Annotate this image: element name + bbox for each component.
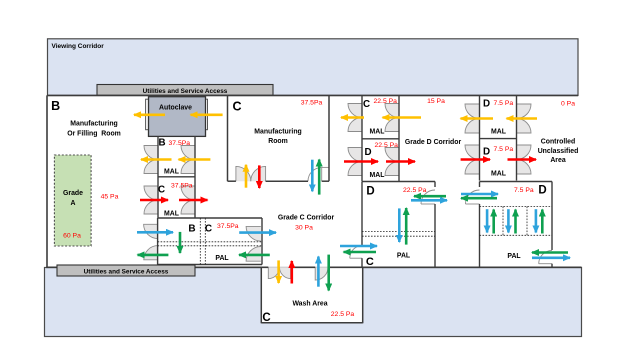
right D PAL cells dashed vert 2 [526, 207, 528, 236]
svg-text:60 Pa: 60 Pa [63, 233, 81, 240]
right D PAL cell3 arrow green up [541, 210, 544, 234]
right D PAL left wall stub [479, 182, 481, 188]
svg-text:Manufacturing: Manufacturing [254, 129, 301, 136]
autoclave right tab [205, 99, 208, 130]
middle MAL column right wall [398, 95, 400, 181]
right MAL divider wall [480, 138, 517, 140]
right D PAL cell2 arrow green up [514, 210, 517, 234]
svg-text:37.5Pa: 37.5Pa [169, 140, 191, 147]
svg-text:Unclassified: Unclassified [538, 148, 579, 155]
C MAL door right (double-acting) [181, 186, 195, 200]
bottom corridor zone [45, 268, 582, 337]
svg-text:D: D [483, 98, 490, 109]
right D PAL bottom door arc [539, 250, 552, 263]
wash door arrow green down [327, 255, 330, 291]
left D PAL dashed divider 1 [362, 231, 435, 233]
B MAL arrow yellow left inner [179, 158, 211, 161]
PAL B/C left wall [157, 218, 159, 265]
middle D MAL door right [385, 148, 399, 162]
svg-text:Grade C Corridor: Grade C Corridor [278, 215, 335, 222]
right D PAL cells dashed vert 1 [502, 207, 504, 236]
left D PAL left wall upper [361, 182, 363, 246]
svg-text:C: C [205, 224, 212, 235]
right D PAL bottom arrow blue out [532, 256, 570, 259]
wash door arrow yellow down [277, 260, 280, 283]
svg-text:30 Pa: 30 Pa [295, 224, 313, 231]
middle D MAL arrow red inner [344, 160, 378, 163]
right D PAL cell2 arrow blue down [507, 209, 510, 232]
svg-text:37.5Pa: 37.5Pa [171, 183, 193, 190]
facility bottom wall seg3 [328, 266, 582, 268]
PAL B/C vertical divider dashed 1 [199, 218, 201, 265]
left MAL column right wall [194, 136, 196, 218]
wash door arrow blue up [317, 257, 320, 287]
viewing corridor zone [48, 39, 579, 96]
svg-text:0 Pa: 0 Pa [561, 100, 575, 107]
svg-text:PAL: PAL [507, 253, 520, 260]
facility bottom wall seg1 [46, 266, 268, 268]
right MAL column right wall [516, 95, 518, 180]
right D PAL cells dashed top [480, 206, 553, 208]
svg-text:Utilities and Service Access: Utilities and Service Access [143, 88, 228, 95]
svg-text:Grade D Corridor: Grade D Corridor [405, 139, 462, 146]
left D PAL top wall [362, 181, 435, 183]
manufacturing room right wall [328, 95, 330, 181]
svg-text:D: D [483, 147, 490, 158]
svg-text:37.5Pa: 37.5Pa [217, 223, 239, 230]
PAL right wall bottom door [246, 247, 261, 262]
left MAL column left wall [157, 136, 159, 218]
wash door double right leaf [280, 267, 291, 278]
svg-text:C: C [366, 256, 374, 268]
middle C MAL door left [348, 104, 362, 118]
svg-text:D: D [366, 186, 374, 198]
svg-text:A: A [71, 200, 76, 207]
manufacturing room double door right leaf [251, 166, 266, 181]
svg-text:B: B [158, 137, 165, 148]
middle D MAL arrow red outer [386, 160, 415, 163]
svg-text:MAL: MAL [491, 170, 506, 177]
left D PAL C-door arrow blue in [340, 245, 377, 248]
PAL B/C right wall [261, 218, 263, 265]
middle MAL column left wall [361, 95, 363, 181]
PAL arrow green down internal [179, 232, 182, 253]
right D MAL top door right [517, 104, 532, 119]
manufacturing room right door arrow green up [318, 160, 321, 195]
svg-text:MAL: MAL [370, 172, 385, 179]
left D PAL arrow green in [414, 195, 446, 198]
wash door single leaf [315, 267, 328, 280]
PAL B/C horizontal divider dashed 1 [158, 241, 262, 243]
svg-text:22.5 Pa: 22.5 Pa [375, 142, 399, 149]
left D PAL right wall stub [434, 182, 436, 188]
facility top wall [47, 94, 578, 96]
middle C MAL arrow yellow outer [341, 116, 364, 119]
svg-text:7.5 Pa: 7.5 Pa [514, 187, 534, 194]
svg-text:Autoclave: Autoclave [159, 104, 192, 111]
right D MAL bottom arrow red outer [508, 158, 537, 161]
right D PAL right wall lower [551, 264, 553, 268]
svg-text:B: B [51, 99, 60, 113]
PAL left wall top door [144, 224, 158, 238]
left D PAL top-right door leaf [421, 203, 435, 205]
wash area left wall [260, 267, 262, 323]
right D MAL bottom door right [517, 145, 532, 160]
manufacturing room right door lintel [322, 166, 329, 168]
facility left wall [46, 95, 48, 267]
middle C MAL door right [385, 104, 399, 118]
right D PAL arrow green out [461, 197, 497, 200]
left D PAL arrow green up internal [405, 208, 408, 245]
svg-text:37.5Pa: 37.5Pa [301, 100, 323, 107]
left D PAL left wall lower [361, 258, 363, 267]
svg-text:Viewing Corridor: Viewing Corridor [52, 43, 105, 50]
svg-text:Room: Room [268, 138, 288, 145]
svg-text:Area: Area [550, 157, 565, 164]
svg-text:MAL: MAL [164, 211, 179, 218]
B MAL door left (double-acting) [144, 146, 158, 160]
C MAL door left (double-acting) [144, 186, 158, 200]
left D PAL arrow blue out [411, 199, 447, 202]
PAL B/C horizontal divider dashed 2 [158, 245, 262, 247]
PAL arrow blue out to corridor [239, 231, 276, 234]
svg-text:Or Filling Room: Or Filling Room [67, 130, 121, 137]
PAL arrow green in from corridor [239, 254, 270, 257]
svg-text:Wash Area: Wash Area [292, 301, 327, 308]
B/C dividing wall [227, 95, 229, 181]
svg-text:7.5 Pa: 7.5 Pa [494, 146, 514, 153]
svg-text:MAL: MAL [491, 128, 506, 135]
right D PAL cell1 arrow blue down [486, 209, 489, 232]
C MAL arrow red right outer [140, 199, 168, 202]
middle C MAL arrow yellow inner [383, 116, 422, 119]
svg-text:D: D [364, 147, 371, 158]
middle D MAL door left [348, 148, 362, 162]
PAL arrow blue in from B [137, 231, 173, 234]
svg-text:45 Pa: 45 Pa [101, 194, 119, 201]
B MAL door right (double-acting) [181, 146, 195, 160]
right D MAL bottom arrow red inner [461, 158, 490, 161]
PAL arrow green out to B [138, 254, 169, 257]
left D PAL C-door arc [350, 245, 362, 258]
svg-text:Grade: Grade [63, 190, 83, 197]
wash door double left leaf [268, 267, 279, 278]
manufacturing room bottom wall seg3 [322, 180, 329, 182]
svg-text:C: C [233, 100, 242, 114]
svg-text:D: D [538, 185, 546, 197]
autoclave arrow in (yellow) [191, 114, 223, 117]
right D PAL left wall [479, 204, 481, 267]
manufacturing room door arrow red down [258, 165, 261, 188]
svg-text:22.5 Pa: 22.5 Pa [374, 98, 398, 105]
svg-text:PAL: PAL [397, 253, 410, 260]
svg-text:C: C [262, 312, 270, 324]
B MAL / C MAL divider wall [158, 176, 195, 178]
right D MAL top door left [465, 104, 480, 119]
B MAL arrow yellow left outer [141, 158, 172, 161]
svg-text:15 Pa: 15 Pa [427, 98, 445, 105]
PAL B/C vertical divider dashed 2 [204, 218, 206, 265]
right D MAL top arrow yellow inner [507, 117, 538, 120]
right D PAL cell1 arrow green up [492, 210, 495, 234]
wash door arrow red up [290, 261, 293, 284]
manufacturing room right door arrow blue down [311, 160, 314, 192]
svg-text:22.5 Pa: 22.5 Pa [403, 187, 427, 194]
svg-text:Manufacturing: Manufacturing [70, 121, 117, 128]
manufacturing room right door leaf [321, 167, 323, 181]
manufacturing room door arrow yellow up [245, 165, 248, 188]
wash area bottom wall [261, 322, 362, 324]
right D PAL right wall upper [551, 182, 553, 251]
autoclave body [149, 97, 206, 137]
svg-text:MAL: MAL [370, 128, 385, 135]
right D MAL top arrow yellow outer [461, 117, 494, 120]
right MAL column left wall [479, 95, 481, 180]
svg-text:C: C [363, 99, 370, 110]
autoclave left tab [146, 99, 149, 130]
right D PAL top-left door leaf [466, 203, 480, 205]
autoclave arrow out (yellow) [134, 114, 165, 117]
wash area right wall [362, 267, 364, 323]
right D MAL bottom door left [465, 145, 480, 160]
svg-text:B: B [188, 224, 195, 235]
middle MAL divider wall [362, 138, 399, 140]
svg-text:PAL: PAL [215, 255, 228, 262]
manufacturing room double door left leaf [236, 166, 251, 181]
utilities bottom band [57, 265, 195, 276]
right D PAL top wall [480, 181, 553, 183]
right D PAL cells dashed bottom [480, 234, 553, 236]
manufacturing room right door arc [308, 167, 322, 181]
C MAL arrow red right inner [179, 199, 208, 202]
utilities top band [97, 85, 273, 96]
facility bottom wall seg2 [291, 266, 316, 268]
left D PAL right wall [434, 204, 436, 267]
PAL left wall bottom door [144, 246, 158, 260]
left D PAL dashed divider 2 [362, 235, 435, 237]
PAL B/C bottom wall [158, 264, 262, 266]
left D PAL C-door leaf [350, 257, 362, 259]
PAL right wall top door [246, 226, 261, 241]
right D PAL bottom arrow green in [532, 251, 568, 254]
right D PAL arrow blue in [461, 193, 498, 196]
svg-text:Controlled: Controlled [541, 139, 575, 146]
svg-text:Utilities and Service Access: Utilities and Service Access [84, 268, 169, 275]
manufacturing room bottom wall seg1 [228, 180, 236, 182]
right D PAL bottom door leaf [539, 263, 552, 265]
svg-text:C: C [158, 184, 165, 195]
svg-text:22.5 Pa: 22.5 Pa [331, 311, 355, 318]
left D PAL top-right door arc [421, 190, 435, 204]
left D PAL arrow blue down internal [398, 208, 401, 242]
svg-text:MAL: MAL [164, 169, 179, 176]
svg-text:7.5 Pa: 7.5 Pa [494, 100, 514, 107]
grade A zone [54, 155, 91, 246]
right D PAL cell3 arrow blue down [535, 209, 538, 232]
manufacturing room bottom wall seg2 [266, 180, 308, 182]
wash area room [261, 267, 362, 323]
left D PAL C-door arrow green out [344, 251, 377, 254]
PAL B/C top wall [158, 217, 262, 219]
right D PAL top-left door arc [466, 190, 480, 204]
